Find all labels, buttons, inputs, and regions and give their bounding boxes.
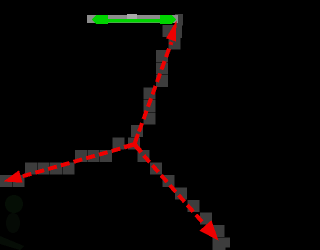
faint trail marks bottom-left [0,195,24,250]
green double-headed arrow on track [92,15,177,24]
light gray block on track [127,14,137,20]
wire pixelated gray link left (center to lower-left) [0,138,125,188]
wire pixelated gray link lower-right (center to bottom-right) [138,150,231,250]
red dashed arrow lower-left [4,145,134,183]
red dashed arrow up (center to top-right junction) [135,21,177,145]
red dashed arrow lower-right [135,146,219,241]
wire pixelated gray link upper (center to top-right) [128,14,183,150]
node center junction [124,134,142,152]
top horizontal gray bar (track) [87,15,178,23]
